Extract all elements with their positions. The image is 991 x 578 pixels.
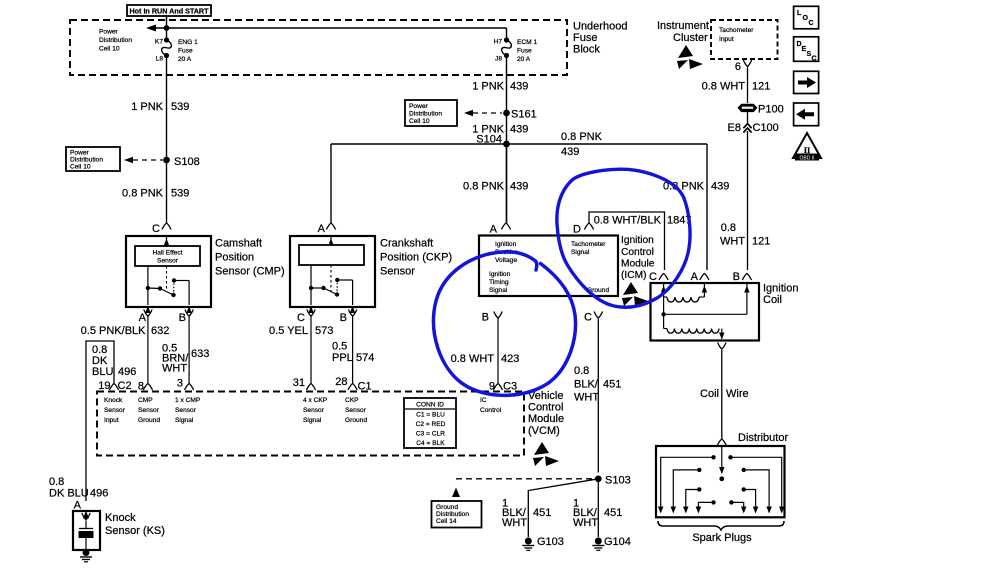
svg-text:Fuse: Fuse	[517, 48, 532, 55]
svg-text:0.8: 0.8	[574, 365, 589, 377]
svg-text:Hall Effect: Hall Effect	[153, 250, 183, 257]
svg-text:S108: S108	[174, 156, 200, 168]
svg-text:WHT: WHT	[502, 517, 527, 529]
svg-text:C: C	[297, 312, 305, 324]
svg-text:121: 121	[752, 81, 770, 93]
svg-text:A: A	[74, 500, 82, 512]
svg-text:439: 439	[510, 124, 528, 136]
svg-text:19: 19	[98, 380, 110, 392]
svg-text:Hot In RUN And START: Hot In RUN And START	[129, 7, 209, 16]
svg-text:0.8 WHT: 0.8 WHT	[702, 81, 746, 93]
svg-text:C: C	[812, 56, 817, 63]
svg-text:Control: Control	[621, 247, 654, 258]
svg-text:Sensor: Sensor	[303, 407, 325, 414]
svg-text:Distribution: Distribution	[409, 111, 442, 118]
svg-text:G104: G104	[604, 536, 631, 548]
svg-text:Ignition: Ignition	[763, 283, 798, 295]
svg-text:8: 8	[138, 381, 144, 393]
svg-text:Sensor: Sensor	[175, 407, 197, 414]
svg-text:Power: Power	[99, 29, 118, 36]
svg-text:A: A	[490, 224, 498, 236]
svg-text:Input: Input	[104, 417, 119, 424]
svg-text:0.5 YEL: 0.5 YEL	[269, 325, 308, 337]
svg-text:Signal: Signal	[303, 417, 322, 424]
svg-text:PPL: PPL	[332, 352, 353, 364]
svg-text:451: 451	[604, 507, 622, 519]
svg-text:C2: C2	[118, 380, 132, 392]
svg-text:CMP: CMP	[138, 397, 153, 404]
svg-text:Cell 10: Cell 10	[70, 164, 91, 171]
svg-text:Ignition: Ignition	[489, 271, 511, 278]
svg-text:Distribution: Distribution	[99, 37, 132, 44]
svg-text:20 A: 20 A	[517, 56, 531, 63]
svg-text:Crankshaft: Crankshaft	[380, 238, 433, 250]
svg-text:439: 439	[561, 146, 579, 158]
svg-text:C3 = CLR: C3 = CLR	[416, 431, 445, 438]
svg-text:C3: C3	[503, 381, 517, 393]
svg-text:Knock: Knock	[104, 397, 123, 404]
svg-text:ENG 1: ENG 1	[178, 39, 198, 46]
svg-text:Sensor (CMP): Sensor (CMP)	[215, 266, 285, 278]
svg-text:0.8 PNK: 0.8 PNK	[122, 188, 164, 200]
svg-text:121: 121	[752, 236, 770, 248]
svg-text:1 PNK: 1 PNK	[131, 101, 163, 113]
svg-text:B: B	[482, 312, 489, 324]
svg-text:G103: G103	[537, 536, 564, 548]
svg-text:Sensor: Sensor	[380, 266, 415, 278]
svg-text:Distribution: Distribution	[70, 157, 103, 164]
svg-text:6: 6	[735, 61, 741, 73]
svg-text:Fuse: Fuse	[178, 48, 193, 55]
svg-text:Sensor: Sensor	[138, 407, 160, 414]
svg-text:D: D	[573, 224, 581, 236]
svg-text:1 PNK: 1 PNK	[472, 81, 504, 93]
svg-text:Ground: Ground	[345, 417, 367, 424]
svg-text:(VCM): (VCM)	[528, 425, 560, 437]
svg-text:Distribution: Distribution	[436, 511, 469, 518]
svg-text:BLU: BLU	[92, 366, 113, 378]
svg-text:Instrument: Instrument	[657, 20, 709, 32]
svg-text:CKP: CKP	[345, 397, 359, 404]
svg-text:ECM 1: ECM 1	[517, 39, 537, 46]
svg-text:0.8 WHT: 0.8 WHT	[451, 353, 495, 365]
svg-text:C4 = BLK: C4 = BLK	[416, 440, 445, 447]
svg-text:496: 496	[90, 488, 108, 500]
svg-text:Sensor: Sensor	[157, 258, 179, 265]
svg-text:0.8 PNK: 0.8 PNK	[561, 131, 603, 143]
svg-text:BLK/: BLK/	[574, 379, 599, 391]
svg-text:J8: J8	[495, 56, 502, 63]
svg-text:439: 439	[711, 181, 729, 193]
svg-text:1 x CMP: 1 x CMP	[175, 397, 201, 404]
svg-text:4 x CKP: 4 x CKP	[303, 397, 328, 404]
svg-text:Power: Power	[70, 150, 89, 157]
svg-text:Cell 10: Cell 10	[99, 46, 120, 53]
svg-text:20 A: 20 A	[178, 56, 192, 63]
svg-text:0.8 PNK: 0.8 PNK	[463, 181, 505, 193]
svg-text:C: C	[584, 312, 592, 324]
svg-text:451: 451	[603, 379, 621, 391]
svg-text:Coil: Coil	[700, 388, 719, 400]
svg-text:Camshaft: Camshaft	[215, 238, 262, 250]
svg-text:539: 539	[171, 101, 189, 113]
svg-text:Signal: Signal	[571, 249, 590, 256]
svg-text:Control: Control	[480, 407, 502, 414]
svg-text:0.8: 0.8	[49, 476, 64, 488]
svg-text:Signal: Signal	[489, 287, 508, 294]
svg-text:A: A	[691, 271, 699, 283]
svg-text:Tachometer: Tachometer	[719, 27, 754, 34]
svg-text:K7: K7	[155, 39, 163, 46]
svg-text:Tachometer: Tachometer	[571, 241, 606, 248]
svg-text:P100: P100	[758, 104, 784, 116]
svg-text:Knock: Knock	[105, 512, 136, 524]
svg-text:0.8 WHT/BLK: 0.8 WHT/BLK	[594, 215, 662, 227]
svg-text:IC: IC	[480, 397, 487, 404]
svg-text:Control: Control	[528, 402, 563, 414]
svg-text:Fuse: Fuse	[573, 32, 597, 44]
svg-text:WHT: WHT	[574, 392, 599, 404]
svg-text:Module: Module	[528, 413, 564, 425]
svg-text:539: 539	[171, 188, 189, 200]
svg-text:0.8: 0.8	[721, 222, 736, 234]
svg-text:B: B	[733, 271, 740, 283]
svg-text:L: L	[797, 10, 802, 17]
svg-text:573: 573	[315, 325, 333, 337]
svg-text:Underhood: Underhood	[573, 21, 627, 33]
svg-text:A: A	[318, 223, 326, 235]
svg-text:Sensor: Sensor	[345, 407, 367, 414]
svg-text:Distributor: Distributor	[738, 432, 788, 444]
svg-text:439: 439	[510, 181, 528, 193]
svg-text:Ignition: Ignition	[495, 241, 517, 248]
svg-text:B: B	[179, 312, 186, 324]
svg-text:Input: Input	[719, 36, 734, 43]
svg-text:496: 496	[118, 366, 136, 378]
svg-text:Sensor: Sensor	[104, 407, 126, 414]
svg-text:31: 31	[293, 377, 305, 389]
svg-text:Coil: Coil	[763, 294, 782, 306]
svg-text:3: 3	[177, 378, 183, 390]
svg-text:Position (CKP): Position (CKP)	[380, 252, 452, 264]
svg-text:Module: Module	[621, 259, 655, 270]
svg-text:0.5: 0.5	[332, 341, 347, 353]
svg-text:WHT: WHT	[573, 517, 598, 529]
svg-text:Signal: Signal	[175, 417, 194, 424]
svg-text:S103: S103	[605, 475, 631, 487]
svg-text:633: 633	[191, 348, 209, 360]
svg-text:CONN ID: CONN ID	[416, 402, 444, 409]
svg-text:Timing: Timing	[489, 279, 509, 286]
svg-text:439: 439	[510, 81, 528, 93]
svg-text:Position: Position	[215, 252, 254, 264]
svg-text:Ground: Ground	[436, 504, 458, 511]
svg-text:OBD II: OBD II	[799, 155, 814, 161]
svg-text:423: 423	[501, 353, 519, 365]
svg-text:632: 632	[151, 325, 169, 337]
svg-text:Voltage: Voltage	[495, 257, 517, 264]
svg-text:C: C	[649, 271, 657, 283]
svg-text:Cell 10: Cell 10	[409, 118, 430, 125]
svg-text:Spark Plugs: Spark Plugs	[692, 532, 752, 544]
svg-text:L8: L8	[156, 56, 164, 63]
svg-text:C100: C100	[753, 122, 779, 134]
svg-text:(ICM): (ICM)	[621, 270, 646, 281]
svg-text:B: B	[340, 312, 347, 324]
svg-text:C2 = RED: C2 = RED	[416, 421, 446, 428]
svg-text:574: 574	[356, 352, 374, 364]
svg-text:H7: H7	[494, 39, 503, 46]
svg-text:C: C	[809, 20, 814, 27]
svg-text:Wire: Wire	[726, 388, 749, 400]
svg-text:DK BLU: DK BLU	[49, 488, 89, 500]
svg-text:WHT: WHT	[162, 363, 187, 375]
svg-text:Sensor (KS): Sensor (KS)	[105, 525, 165, 537]
svg-text:C1 = BLU: C1 = BLU	[416, 412, 445, 419]
svg-text:Block: Block	[573, 44, 600, 56]
svg-text:Cluster: Cluster	[673, 32, 708, 44]
svg-text:S161: S161	[511, 109, 537, 121]
svg-text:9: 9	[489, 381, 495, 393]
svg-text:0.5 PNK/BLK: 0.5 PNK/BLK	[81, 325, 146, 337]
svg-text:Ground: Ground	[138, 417, 160, 424]
svg-text:Cell 14: Cell 14	[436, 518, 457, 525]
svg-text:28: 28	[335, 376, 347, 388]
svg-text:Power: Power	[409, 103, 428, 110]
svg-text:E8: E8	[728, 122, 741, 134]
svg-text:WHT: WHT	[720, 236, 745, 248]
svg-text:C: C	[152, 223, 160, 235]
svg-text:C1: C1	[358, 381, 372, 393]
svg-text:451: 451	[533, 507, 551, 519]
svg-text:Ignition: Ignition	[621, 235, 654, 246]
